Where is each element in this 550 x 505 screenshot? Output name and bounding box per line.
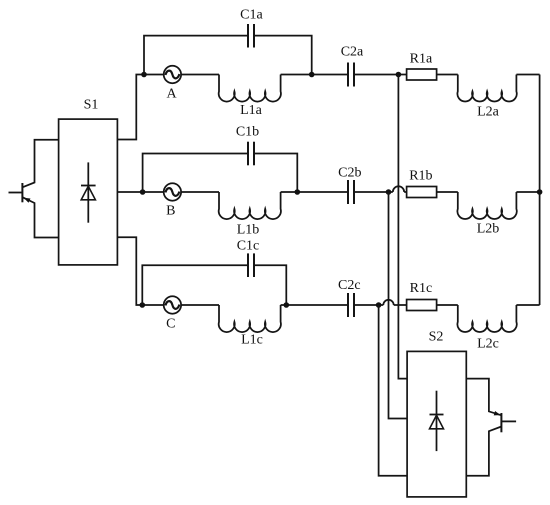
- inductor L2c: [457, 305, 516, 332]
- wire source A to L1a: [181, 74, 219, 76]
- wire source B to L1b: [181, 191, 219, 193]
- wire S1 to node B: [117, 191, 163, 193]
- wire C2a to R1a: [354, 74, 407, 76]
- wire hop over phase B drop: [383, 300, 393, 305]
- wire hop to R1b: [404, 191, 406, 193]
- transistor Q2: [466, 379, 516, 476]
- junction dot right bus: [537, 189, 543, 195]
- junction dot phase B right: [295, 189, 301, 195]
- converter S2: [407, 351, 466, 497]
- wire L2c to right bus: [516, 304, 539, 306]
- capacitor C1a: [248, 24, 254, 48]
- capacitor C2b: [348, 180, 354, 204]
- wire L2a to right bus: [516, 74, 539, 76]
- resistor R1b: [407, 187, 437, 198]
- AC source B: [164, 183, 181, 200]
- svg-text:L2c: L2c: [477, 337, 499, 352]
- wire hop over phase A drop: [393, 186, 404, 192]
- svg-text:C1b: C1b: [236, 125, 259, 140]
- resistor R1c: [407, 300, 437, 311]
- wire L1b to node: [281, 191, 348, 193]
- wire L1c to node: [281, 304, 348, 306]
- svg-text:L2a: L2a: [477, 105, 500, 120]
- svg-text:C2b: C2b: [338, 165, 361, 180]
- inductor L1a: [219, 75, 281, 102]
- capacitor C2c: [348, 293, 354, 317]
- junction dot phase B drop: [386, 189, 392, 195]
- svg-text:A: A: [166, 87, 177, 102]
- wire source C to L1c: [181, 304, 219, 306]
- inductor L1b: [219, 192, 281, 219]
- AC source A: [164, 66, 181, 83]
- capacitor C1c branch: [142, 265, 248, 305]
- wire S1 to node A: [117, 75, 163, 140]
- resistor R1a: [407, 69, 437, 80]
- svg-text:R1b: R1b: [409, 168, 432, 183]
- capacitor C2a: [348, 63, 354, 87]
- wire C2b to hop: [354, 191, 393, 193]
- wire R1c to L2c: [437, 304, 458, 306]
- AC source C: [164, 296, 181, 313]
- node A junction dot: [141, 72, 147, 78]
- svg-text:C2c: C2c: [338, 278, 361, 293]
- svg-text:C1a: C1a: [240, 8, 263, 23]
- svg-text:R1a: R1a: [410, 52, 433, 67]
- transistor Q1: [9, 140, 59, 238]
- wire L1a to node: [281, 74, 348, 76]
- inductor L2b: [457, 192, 516, 219]
- inductor L2a: [457, 75, 516, 102]
- svg-text:L1b: L1b: [237, 223, 260, 238]
- converter S1: [59, 119, 118, 265]
- svg-text:L1a: L1a: [240, 103, 263, 118]
- svg-text:S2: S2: [429, 330, 444, 345]
- junction dot phase A right: [309, 72, 315, 78]
- wire phase B drop to S2: [389, 192, 408, 419]
- svg-text:C1c: C1c: [237, 239, 260, 254]
- svg-text:B: B: [166, 204, 175, 219]
- right bus: [539, 75, 541, 306]
- svg-text:L1c: L1c: [241, 332, 263, 347]
- wire hop to R1c crossing phase A drop: [394, 304, 407, 306]
- svg-text:C2a: C2a: [341, 45, 364, 60]
- svg-text:C: C: [166, 317, 175, 332]
- capacitor C1a branch: [144, 36, 248, 75]
- wire R1a to L2a: [437, 74, 458, 76]
- capacitor C1c: [248, 253, 254, 277]
- wire phase C drop to S2: [379, 305, 408, 476]
- wire R1b to L2b: [437, 191, 458, 193]
- wire S1 to node C: [117, 237, 163, 305]
- node C junction dot: [140, 302, 146, 308]
- capacitor C1b: [248, 142, 254, 166]
- svg-text:S1: S1: [84, 98, 99, 113]
- wire L2b to right bus: [516, 191, 539, 193]
- diode D1: [81, 162, 96, 222]
- wire phase A drop to S2: [398, 75, 407, 379]
- wire C2c to hop: [354, 304, 383, 306]
- capacitor C1b branch: [143, 154, 248, 193]
- junction dot phase C drop: [376, 302, 382, 308]
- svg-text:L2b: L2b: [477, 222, 500, 237]
- diode D2: [430, 391, 444, 451]
- junction dot phase A drop: [396, 72, 402, 78]
- node B junction dot: [140, 189, 146, 195]
- junction dot phase C right: [284, 302, 290, 308]
- inductor L1c: [219, 305, 281, 332]
- svg-text:R1c: R1c: [410, 281, 433, 296]
